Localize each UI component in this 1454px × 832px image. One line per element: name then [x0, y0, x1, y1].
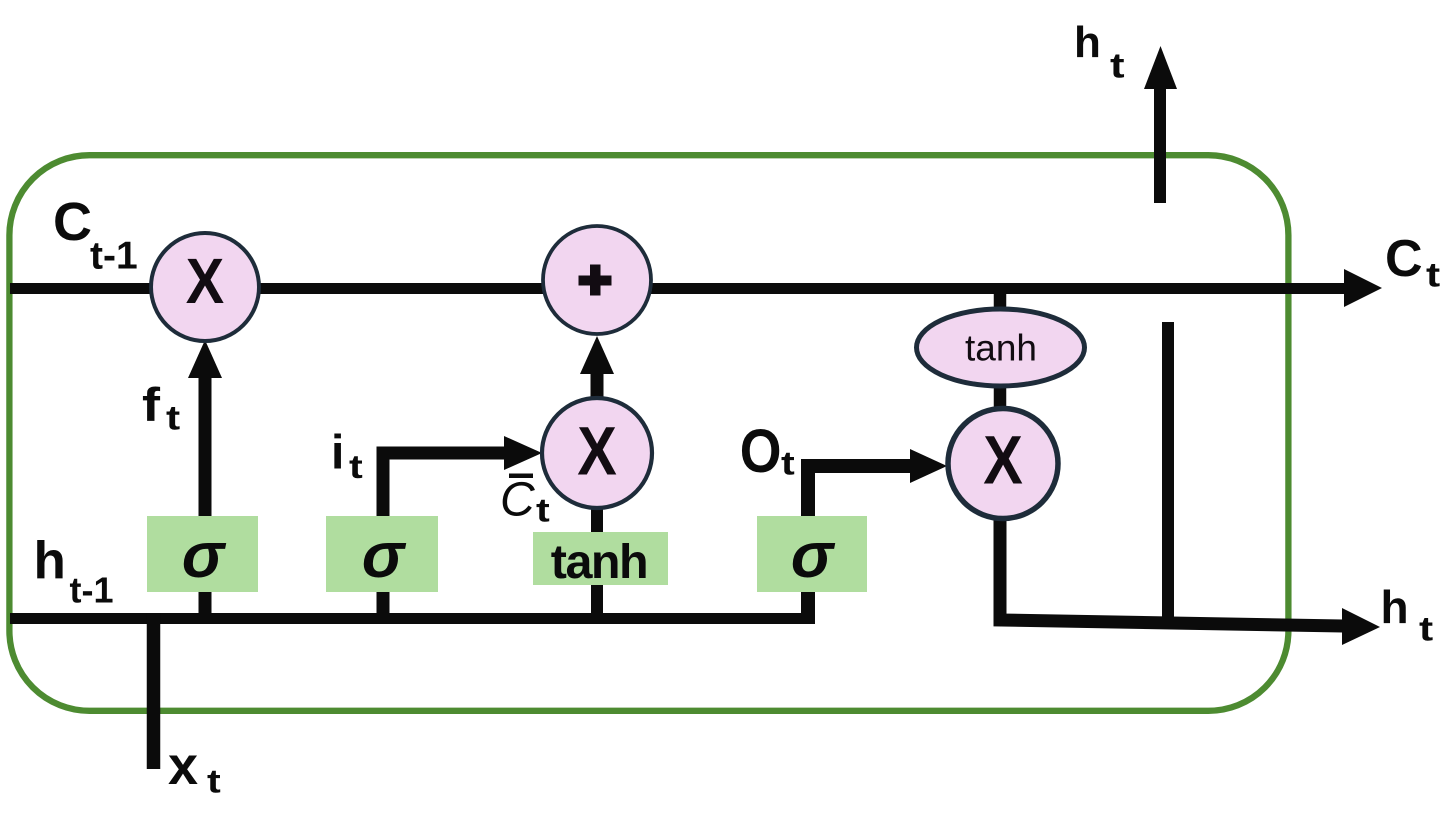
- svg-text:C: C: [53, 192, 92, 252]
- svg-text:tanh: tanh: [965, 328, 1037, 369]
- svg-text:t: t: [166, 399, 180, 437]
- svg-text:t: t: [207, 762, 221, 799]
- svg-text:t-1: t-1: [70, 570, 114, 611]
- svg-text:t-1: t-1: [90, 235, 138, 278]
- svg-text:h: h: [34, 532, 66, 591]
- svg-text:C: C: [500, 474, 535, 527]
- svg-text:σ: σ: [791, 519, 836, 591]
- svg-text:t: t: [1110, 47, 1125, 86]
- svg-text:t: t: [349, 448, 363, 485]
- svg-text:t: t: [536, 491, 550, 528]
- svg-text:σ: σ: [182, 519, 227, 591]
- svg-text:σ: σ: [362, 519, 407, 591]
- svg-text:X: X: [577, 412, 617, 489]
- svg-text:i: i: [331, 427, 344, 480]
- svg-text:x: x: [168, 736, 198, 796]
- svg-text:X: X: [983, 421, 1023, 498]
- svg-text:O: O: [740, 418, 782, 486]
- svg-text:h: h: [1074, 18, 1101, 67]
- svg-text:f: f: [142, 378, 160, 431]
- svg-text:tanh: tanh: [551, 535, 647, 589]
- svg-text:t: t: [1419, 610, 1433, 648]
- svg-text:X: X: [186, 245, 225, 316]
- svg-text:t: t: [781, 444, 795, 481]
- svg-text:C: C: [1385, 230, 1423, 288]
- svg-text:t: t: [1426, 256, 1440, 294]
- svg-text:h: h: [1381, 581, 1409, 633]
